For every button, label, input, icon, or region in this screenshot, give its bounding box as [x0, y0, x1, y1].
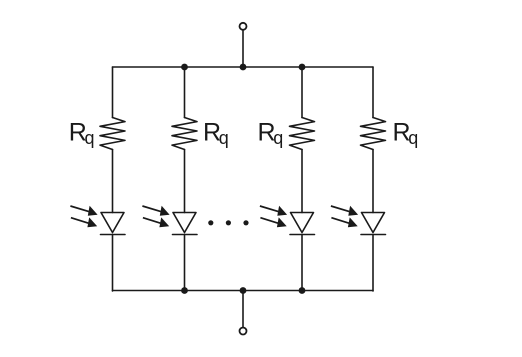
wire top bus: [113, 66, 374, 68]
wire branch 1 middle: [112, 150, 114, 213]
photodiode D1 triangle: [101, 213, 124, 233]
label Rq for R2: [203, 118, 229, 148]
resistor R2 (Rq): [172, 118, 197, 150]
wire top terminal stub: [242, 30, 244, 67]
label Rq for R4: [393, 118, 419, 148]
photodiode D4 cathode bar: [361, 234, 386, 236]
wire branch 1 upper: [112, 67, 114, 118]
svg-text:q: q: [219, 128, 229, 148]
ellipsis dot 2: [226, 220, 231, 225]
junction dot bottom bus at branch 2: [181, 287, 188, 294]
wire branch 3 lower: [301, 235, 303, 292]
wire branch 2 middle: [184, 150, 186, 213]
wire bottom bus: [113, 290, 374, 292]
wire branch 3 upper: [301, 67, 303, 118]
junction dot bottom bus at terminal: [240, 287, 247, 294]
photodiode D3 cathode bar: [290, 234, 315, 236]
light arrows at photodiode D2: [142, 206, 169, 228]
light arrows at photodiode D3: [260, 206, 287, 228]
wire branch 3 middle: [301, 150, 303, 213]
wire branch 4 upper: [372, 67, 374, 118]
resistor R3 (Rq): [290, 118, 315, 150]
photodiode D3 triangle: [291, 213, 314, 233]
wire bottom terminal stub: [242, 291, 244, 328]
photodiode D2 triangle: [173, 213, 196, 233]
ellipsis dot 3: [243, 220, 248, 225]
light arrows at photodiode D1: [70, 206, 97, 228]
photodiode D4 triangle: [362, 213, 385, 233]
wire branch 4 lower: [372, 235, 374, 292]
wire branch 1 lower: [112, 235, 114, 292]
terminal bottom (open circle): [240, 328, 247, 335]
ellipsis dot 1: [208, 220, 213, 225]
svg-text:q: q: [273, 128, 283, 148]
photodiode D2 cathode bar: [173, 234, 198, 236]
svg-text:q: q: [85, 128, 95, 148]
photodiode D1 cathode bar: [101, 234, 126, 236]
label Rq for R1: [69, 118, 95, 148]
resistor R4 (Rq): [361, 118, 386, 150]
wire branch 2 lower: [184, 235, 186, 292]
light arrows at photodiode D4: [331, 206, 358, 228]
resistor R1 (Rq): [100, 118, 125, 150]
junction dot top bus at branch 2: [181, 64, 188, 71]
svg-text:q: q: [408, 128, 418, 148]
terminal top (open circle): [240, 23, 247, 30]
wire branch 2 upper: [184, 67, 186, 118]
junction dot bottom bus at branch 3: [299, 287, 306, 294]
junction dot top bus at branch 3: [299, 64, 306, 71]
junction dot top bus at terminal: [240, 64, 247, 71]
wire branch 4 middle: [372, 150, 374, 213]
label Rq for R3: [258, 118, 284, 148]
